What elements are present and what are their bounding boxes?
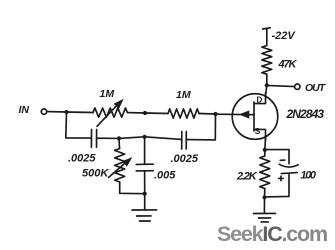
terminal OUT circle <box>295 84 300 89</box>
wire: IN lead to node A <box>47 111 67 113</box>
wire: node A down to lower rail <box>65 112 68 138</box>
wire: source node to C 100 branch <box>265 150 289 164</box>
source node junction dot <box>263 148 267 152</box>
svg-text:OUT: OUT <box>305 82 327 94</box>
wire: C 100 bottom to ground node <box>265 173 290 197</box>
wire: pot to node B <box>127 112 145 114</box>
drain lead inside <box>254 93 266 104</box>
wire: ground node down <box>263 197 265 213</box>
capacitor C 100 curved plate <box>279 164 298 167</box>
resistor 1M zigzag <box>168 109 199 118</box>
svg-text:S: S <box>255 126 261 136</box>
ground symbol (left) <box>132 209 157 211</box>
power terminal tick -22V <box>263 28 271 29</box>
node E junction dot <box>143 135 147 139</box>
wire: node B to resistor 1M <box>145 112 168 115</box>
resistor 2.2K zigzag <box>264 150 266 156</box>
potentiometer arrow (500K) <box>109 162 127 178</box>
capacitor .005 plates <box>136 163 153 165</box>
source lead inside <box>254 129 266 140</box>
svg-text:.0025: .0025 <box>68 153 96 165</box>
node D junction dot <box>117 136 121 140</box>
ground node junction dot (right) <box>262 195 266 199</box>
node C junction dot <box>213 112 217 116</box>
svg-text:D: D <box>257 96 263 105</box>
capacitor .0025 (right) plates <box>181 132 183 150</box>
wire: node A to R 1M pot <box>67 111 94 114</box>
svg-text:500K: 500K <box>82 168 109 180</box>
potentiometer arrow (1M) <box>97 104 119 127</box>
capacitor C 100 straight plate <box>281 173 297 174</box>
ground node junction dot (left) <box>143 192 147 196</box>
wire: -22V down to 47K <box>266 28 268 45</box>
svg-text:-22V: -22V <box>272 30 297 42</box>
wire: node E down to cap .005 <box>144 137 146 164</box>
svg-text:47K: 47K <box>278 59 298 71</box>
svg-text:2N2843: 2N2843 <box>286 107 325 121</box>
transistor Q1 2N2843 circle <box>232 94 278 140</box>
svg-text:1M: 1M <box>100 88 115 100</box>
node A junction dot <box>64 110 68 114</box>
svg-text:.0025: .0025 <box>171 153 199 165</box>
wire: resistor to node C <box>199 113 216 116</box>
node B junction dot <box>143 111 147 115</box>
resistor 47K zigzag <box>262 46 272 75</box>
resistor 1M potentiometer zigzag <box>93 108 127 117</box>
svg-text:IN: IN <box>19 104 30 116</box>
drain node junction dot <box>265 83 269 87</box>
ground symbol (right) <box>254 212 276 214</box>
wire: cap .005 down to ground node (left) <box>144 171 146 194</box>
wire: down to ground (left) <box>144 194 146 210</box>
resistor 500K potentiometer <box>118 138 121 148</box>
wire: node D to node E <box>119 137 145 139</box>
wire: cap to rail right end, up to node C <box>186 114 215 140</box>
wire: node E to cap .0025 right <box>145 137 182 140</box>
wire: drain node down to transistor drain <box>266 85 267 96</box>
svg-text:.005: .005 <box>154 170 176 182</box>
terminal IN circle <box>41 109 46 114</box>
svg-text:SeekIC.com: SeekIC.com <box>217 222 327 246</box>
wire: node C to FET gate <box>216 113 255 116</box>
svg-text:100: 100 <box>301 170 317 182</box>
wire: lower rail to node D <box>97 137 119 139</box>
FET channel bar <box>253 102 255 131</box>
svg-text:2.2K: 2.2K <box>236 171 258 183</box>
svg-text:1M: 1M <box>176 89 191 101</box>
wire: 47K to drain node <box>266 74 268 85</box>
wire: transistor source down to source node <box>264 138 267 150</box>
wire: drain node to OUT terminal <box>267 85 295 86</box>
wire: lower rail left segment <box>66 137 92 139</box>
capacitor .0025 (left) plates <box>90 130 92 148</box>
capacitor C 100 minus sign <box>280 159 285 161</box>
capacitor C 100 plus sign <box>279 176 284 180</box>
gate arrowhead (points left) <box>240 111 248 118</box>
